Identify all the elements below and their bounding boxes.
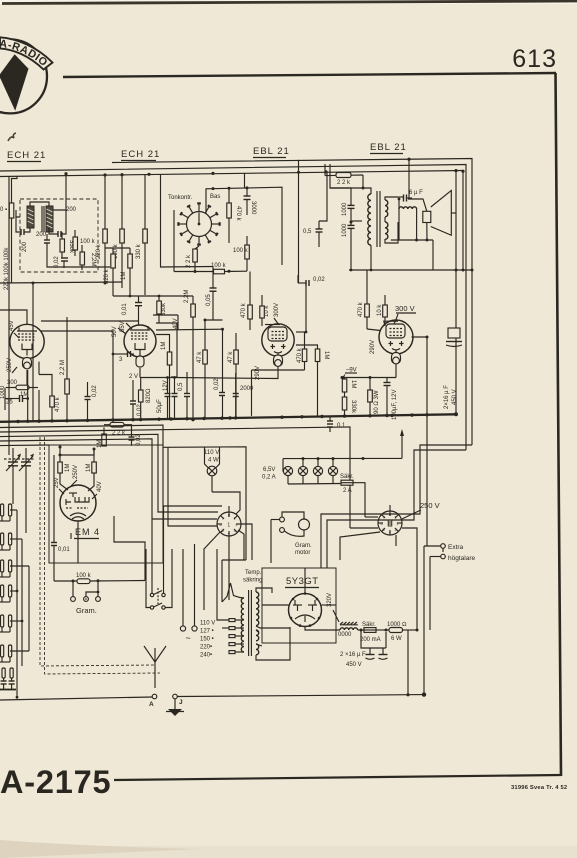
- misc left verticals: [13, 283, 33, 533]
- svg-text:2 A: 2 A: [343, 488, 352, 494]
- wire tone left drop: [173, 210, 175, 272]
- svg-text:5Y3GT: 5Y3GT: [286, 576, 319, 587]
- svg-text:110 V: 110 V: [204, 450, 219, 456]
- svg-text:470 k: 470 k: [241, 302, 247, 318]
- resistor 820k: [104, 248, 115, 296]
- svg-text:12V: 12V: [163, 380, 169, 391]
- svg-text:~: ~: [186, 633, 191, 643]
- choke (filter): [338, 622, 358, 638]
- antenna: [144, 646, 166, 688]
- svg-text:0,5: 0,5: [178, 382, 184, 391]
- tube V3 EBL21: [262, 324, 294, 367]
- cascade rail 4: [0, 439, 217, 519]
- capacitor 100µF 12V: [384, 364, 399, 421]
- capacitor 3000 (tone): [244, 188, 257, 215]
- svg-text:40V: 40V: [97, 481, 103, 492]
- gram jack wiring: [114, 516, 145, 581]
- svg-text:1M: 1M: [86, 464, 92, 472]
- bus junction dots: [16, 412, 458, 423]
- svg-text:25V: 25V: [54, 477, 60, 488]
- svg-text:250 V: 250 V: [420, 501, 440, 510]
- svg-text:470 k: 470 k: [55, 396, 61, 412]
- resistor 1M (V2): [161, 342, 172, 419]
- svg-text:220•: 220•: [200, 645, 212, 651]
- wire V1 grid top: [0, 310, 27, 325]
- label 250V (EM4): [71, 465, 79, 486]
- svg-text:250V: 250V: [73, 465, 79, 479]
- node dots on bus C: [103, 170, 327, 176]
- svg-text:EBL 21: EBL 21: [253, 146, 290, 157]
- svg-text:2: 2: [397, 522, 399, 526]
- svg-text:motor: motor: [295, 550, 310, 556]
- resistor 1M (V1 cathode) + label 300: [6, 380, 38, 398]
- resistor 22k (tone): [186, 249, 197, 272]
- cascade rail 5 (EM4 feed): [0, 444, 49, 447]
- capacitor 0,5 (left of OT): [303, 221, 323, 247]
- svg-text:0,1: 0,1: [337, 423, 346, 429]
- svg-text:1: 1: [234, 517, 236, 521]
- svg-text:100 k: 100 k: [80, 239, 96, 245]
- resistor 470k (V4 grid): [252, 286, 308, 416]
- svg-text:127 •: 127 •: [200, 629, 214, 635]
- label 25V (EM4): [54, 477, 64, 494]
- svg-text:200: 200: [36, 232, 47, 238]
- resistor 22k (V2 agc, below bus): [104, 422, 132, 437]
- capacitor 0,01 (EM4): [51, 455, 70, 581]
- switch section 6: [1, 645, 12, 657]
- svg-text:2 2 k: 2 2 k: [112, 431, 126, 437]
- wire v 160.5: [160, 174, 162, 267]
- EM4 compartment box: [49, 445, 163, 563]
- svg-text:6 W: 6 W: [391, 636, 402, 642]
- svg-text:47 k: 47 k: [228, 351, 234, 363]
- terminal J (jord): [166, 694, 184, 716]
- svg-text:0,02: 0,02: [92, 385, 98, 397]
- wire Extra drop: [442, 548, 444, 552]
- svg-text:8: 8: [228, 514, 230, 518]
- svg-text:EM 4: EM 4: [75, 527, 100, 537]
- svg-text:50V: 50V: [112, 326, 118, 337]
- stray mark: [8, 133, 16, 141]
- svg-text:0,05: 0,05: [206, 294, 212, 306]
- svg-text:EBL 21: EBL 21: [370, 142, 407, 153]
- main B+ wire: [305, 627, 340, 630]
- svg-text:0,2 A: 0,2 A: [262, 475, 276, 481]
- secondary winding: [385, 200, 388, 217]
- primary winding: [368, 194, 371, 245]
- capacitor 3 (V2 osc): [112, 351, 134, 363]
- svg-text:10 k: 10 k: [264, 305, 270, 317]
- svg-text:ECH 21: ECH 21: [121, 149, 160, 160]
- svg-text:200: 200: [22, 241, 28, 252]
- label 300V with arrow: [394, 304, 416, 324]
- svg-text:2 2 k: 2 2 k: [186, 254, 192, 268]
- tube socket S2: [378, 505, 402, 535]
- terminal A: [0, 694, 157, 708]
- svg-text:330k: 330k: [161, 302, 167, 316]
- svg-text:7: 7: [222, 517, 224, 521]
- bottom ground wire: [177, 695, 424, 697]
- svg-text:5: 5: [222, 529, 224, 533]
- svg-text:250V: 250V: [7, 358, 13, 372]
- fuse Säkr 2A: [288, 474, 365, 517]
- capacitor 0,02 (below can): [54, 256, 68, 268]
- capacitor 0,05: [206, 267, 217, 321]
- capacitor 0,02 (V2 cath): [130, 380, 143, 420]
- page top rule: [63, 73, 556, 77]
- wire V4 grid/screen stubs: [367, 322, 385, 331]
- svg-text:2 V: 2 V: [129, 374, 138, 380]
- wire V1 cathode rail: [38, 362, 40, 375]
- capacitor 0,5 (bypass row): [178, 372, 190, 419]
- wire h 296: [113, 295, 193, 297]
- svg-text:1M: 1M: [323, 351, 329, 359]
- wire EM4 anode feed: [60, 454, 94, 456]
- label 250V: [7, 358, 17, 373]
- svg-text:330 k: 330 k: [136, 243, 142, 259]
- column verticals: [17, 510, 29, 699]
- svg-text:470 k: 470 k: [297, 347, 303, 363]
- svg-text:50µF: 50µF: [157, 399, 163, 413]
- resistor 47k (b): [228, 333, 238, 419]
- svg-text:0,02: 0,02: [136, 434, 142, 446]
- wire V4 plate to rail: [412, 337, 428, 546]
- capacitor 0,02 (V4 grid): [298, 275, 325, 286]
- wire v 244.5: [244, 173, 246, 188]
- contacts bottom: [2, 668, 13, 678]
- tube label ECH 21: [7, 150, 46, 162]
- resistor (antenna series): [0, 176, 17, 283]
- jack A: [71, 597, 76, 602]
- capacitor 0,02 (agc, below bus): [129, 434, 143, 446]
- svg-text:31996 Svea Tr. 4 52: 31996 Svea Tr. 4 52: [511, 785, 567, 791]
- svg-text:450 V: 450 V: [452, 389, 458, 405]
- svg-text:Säkr.: Säkr.: [340, 474, 354, 480]
- svg-text:470 k: 470 k: [358, 301, 364, 317]
- jack C: [96, 597, 101, 602]
- wire h 282: [0, 282, 122, 283]
- svg-text:2×16 µ F: 2×16 µ F: [444, 385, 450, 409]
- output transformer T2: [297, 160, 398, 283]
- svg-text:4 W: 4 W: [208, 458, 219, 464]
- svg-text:Extra: Extra: [448, 544, 464, 551]
- resistor 470k (tone): [227, 188, 241, 243]
- resistor 470k (V1): [39, 375, 61, 421]
- capacitor C3 0,02 in can: [44, 234, 50, 250]
- svg-text:320V: 320V: [327, 593, 333, 607]
- wire psu drop: [407, 630, 409, 695]
- svg-text:100 k: 100 k: [76, 573, 92, 579]
- wire V2 pin rails: [156, 323, 177, 377]
- svg-text:820Ω: 820Ω: [146, 388, 152, 403]
- svg-text:110 V: 110 V: [200, 621, 215, 627]
- svg-text:Bas: Bas: [210, 194, 220, 200]
- svg-text:1000: 1000: [342, 202, 348, 216]
- svg-text:J: J: [179, 699, 183, 706]
- svg-text:3: 3: [234, 529, 236, 533]
- svg-text:1: 1: [227, 523, 230, 529]
- resistor 2,2M (V2): [191, 296, 196, 421]
- svg-text:2,2 M: 2,2 M: [60, 360, 66, 375]
- switch section 3: [1, 560, 12, 572]
- svg-text:2: 2: [236, 523, 238, 527]
- svg-text:1M: 1M: [20, 392, 28, 398]
- svg-text:6 µ F: 6 µ F: [409, 190, 423, 196]
- svg-text:470 k: 470 k: [235, 206, 241, 222]
- svg-text:150 •: 150 •: [200, 637, 214, 643]
- pilot lamps rail: [283, 457, 402, 459]
- svg-text:6: 6: [220, 523, 222, 527]
- svg-text:A: A: [149, 701, 154, 708]
- svg-text:0 ▪: 0 ▪: [0, 207, 7, 213]
- primary taps: [222, 619, 244, 654]
- label EM 4: [71, 527, 100, 539]
- capacitor 25: [5, 395, 29, 406]
- svg-text:ECH 21: ECH 21: [7, 150, 46, 161]
- resistor 330k (in can): [60, 232, 74, 258]
- terminal högtalare: [430, 554, 475, 562]
- svg-text:4: 4: [389, 531, 391, 535]
- tube EM4 magic eye: [60, 485, 96, 521]
- resistor 100k (tone vertical): [233, 236, 249, 271]
- tube V4 EBL21: [379, 320, 413, 364]
- temp fuse: [222, 560, 262, 602]
- svg-text:1M: 1M: [121, 272, 127, 280]
- wire h 267 row: [160, 266, 213, 269]
- core: [376, 191, 378, 247]
- svg-text:0,01: 0,01: [58, 547, 70, 553]
- pilot lamp 4: [328, 459, 337, 484]
- tap riser: [217, 549, 229, 620]
- label 45V: [9, 320, 19, 338]
- resistor 330k (bank): [136, 174, 147, 295]
- wire can outputs: [47, 250, 110, 267]
- capacitor 1000 (lower): [342, 221, 362, 271]
- wire top border A: [112, 159, 472, 446]
- wire heater rail: [163, 447, 246, 560]
- svg-text:2 2 k: 2 2 k: [337, 180, 351, 186]
- svg-text:0,02: 0,02: [137, 404, 143, 416]
- switch section 1: [1, 504, 12, 516]
- resistor 30k (V4): [296, 172, 329, 417]
- cascade rail 1: [0, 425, 222, 506]
- resistor 330k (V4): [342, 397, 356, 416]
- arrow up (field supply): [400, 429, 404, 458]
- mains switch DPST: [146, 506, 172, 609]
- right feed chain A: [321, 445, 472, 568]
- switch section 2: [1, 533, 12, 545]
- resistor 10k (V3): [260, 295, 265, 326]
- IF transformer can (dashed shield): [20, 199, 98, 272]
- svg-text:200: 200: [66, 207, 77, 213]
- pilot lamp 2: [298, 459, 307, 484]
- svg-text:3000: 3000: [250, 201, 256, 215]
- wire V1-V2 couplings: [41, 320, 139, 322]
- svg-text:2 ×16 µ F: 2 ×16 µ F: [340, 652, 366, 658]
- resistor 47k (a): [197, 319, 223, 420]
- switch section 4: [1, 585, 12, 597]
- transformer secondary wires: [256, 588, 290, 660]
- fuse Säkr 200mA: [358, 622, 389, 643]
- switch section 5: [1, 615, 12, 627]
- wire h 248: [105, 247, 130, 249]
- socket S1 fan wires: [204, 492, 252, 610]
- svg-text:300: 300: [7, 380, 18, 386]
- resistor 470k (V4 feed): [358, 270, 369, 329]
- IF coil L2 secondary: [42, 206, 53, 232]
- svg-text:Gram.: Gram.: [76, 606, 97, 615]
- logo SVEA-RADIO: [0, 37, 53, 113]
- label 300V (V3) + tick: [274, 318, 278, 324]
- tuning gang variable capacitors: [4, 454, 34, 475]
- svg-text:Gram.: Gram.: [295, 543, 312, 549]
- svg-text:1M: 1M: [161, 342, 167, 350]
- capacitor 0,02 (avc): [85, 382, 99, 420]
- capacitor 2000: [233, 373, 254, 419]
- capacitor 0,1: [327, 416, 346, 432]
- IF coil L1 primary: [27, 202, 49, 228]
- svg-text:450 V: 450 V: [346, 662, 362, 668]
- resistor 1M (EM4 right): [86, 449, 96, 491]
- heater caps 50µF 12V: [140, 367, 278, 420]
- capacitor C1 (IF prim): [16, 210, 30, 235]
- lamp 110V 4W: [204, 447, 220, 492]
- page right rule: [556, 73, 562, 776]
- tube V1 ECH21: [10, 324, 44, 369]
- terminal Extra: [424, 544, 464, 551]
- resistor 1000 ohm 6W: [385, 622, 419, 642]
- wire -9V rail: [342, 377, 396, 379]
- socket S2 fan wires: [340, 517, 417, 630]
- svg-text:säkring: säkring: [243, 578, 262, 584]
- svg-text:6,5V: 6,5V: [263, 467, 275, 473]
- label 250V (socket): [402, 501, 440, 519]
- wire bus C: [0, 171, 463, 177]
- resistor 820 ohm: [139, 378, 153, 421]
- label -9V with arrow: [341, 368, 357, 380]
- PSU box: [262, 568, 336, 643]
- electrolytic 2x16µF 450V (top): [349, 269, 474, 415]
- power transformer T3: [200, 590, 259, 659]
- svg-text:90 Ω 3W: 90 Ω 3W: [374, 390, 380, 414]
- pilot lamp 1: [283, 459, 293, 484]
- tube socket S1: [217, 506, 241, 536]
- wire v right rail: [455, 171, 457, 270]
- svg-text:0,02: 0,02: [54, 256, 60, 268]
- wire v antenna column: [8, 176, 10, 455]
- ground bus (chassis): [0, 414, 456, 422]
- resistor 2,2M (V1): [60, 317, 69, 421]
- resistor 1M (V2 agc, below bus): [97, 427, 106, 448]
- svg-text:Säkr.: Säkr.: [362, 622, 376, 628]
- tube V2 ECH21: [124, 325, 156, 367]
- resistor 1M (bank): [121, 248, 132, 296]
- resistor 10k (V4): [377, 295, 387, 326]
- band switch column: [0, 504, 29, 699]
- svg-text:1000 Ω: 1000 Ω: [387, 622, 407, 628]
- svg-text:10 k: 10 k: [377, 304, 383, 316]
- capacitor 6µF: [398, 190, 423, 202]
- svg-text:2,2M: 2,2M: [184, 290, 190, 303]
- svg-text:1M: 1M: [97, 440, 103, 448]
- svg-text:Temp.: Temp.: [245, 570, 262, 576]
- loudspeaker: [391, 190, 452, 270]
- svg-text:5: 5: [383, 528, 385, 532]
- svg-text:613: 613: [512, 45, 557, 73]
- resistor 330k (V2 grid leak): [157, 296, 162, 323]
- svg-text:1000: 1000: [342, 223, 348, 237]
- cascade rail 2: [0, 427, 350, 528]
- svg-text:100 k: 100 k: [233, 248, 249, 254]
- svg-text:0,5: 0,5: [303, 229, 312, 235]
- gram motor connector: [271, 512, 312, 563]
- svg-text:1M: 1M: [350, 380, 356, 388]
- page bottom rule: [114, 775, 561, 780]
- rotary switch tone control: [177, 202, 220, 245]
- svg-text:240•: 240•: [200, 653, 212, 659]
- svg-text:Tonkontr.: Tonkontr.: [168, 195, 193, 201]
- wire can feed: [65, 174, 67, 210]
- tube V5 5Y3GT: [289, 592, 322, 627]
- capacitor 0,02 (row): [214, 329, 225, 419]
- resistor 470k (V3 grid): [248, 272, 253, 331]
- svg-text:200 mA: 200 mA: [360, 637, 381, 643]
- labels above V3: [241, 302, 280, 318]
- wire top border B: [0, 165, 466, 451]
- svg-text:0000: 0000: [338, 632, 352, 638]
- cascade rail 3: [0, 434, 218, 512]
- pilot lamp 3: [313, 459, 322, 484]
- wire speaker top return: [451, 212, 456, 214]
- resistor 100k (tone horizontal): [174, 263, 247, 274]
- mains plug: [180, 544, 197, 643]
- svg-text:300 V: 300 V: [395, 304, 415, 313]
- tube label EBL 21 (2nd): [370, 142, 407, 154]
- svg-text:290V: 290V: [370, 340, 376, 354]
- label 40V (EM4): [92, 481, 103, 499]
- svg-text:7: 7: [383, 516, 385, 520]
- wire EM4 cathode: [77, 521, 79, 563]
- wire 5Y3 plate feeds: [262, 568, 336, 605]
- resistor 1M (EM4 left): [58, 455, 71, 490]
- label 5Y3GT: [285, 576, 319, 588]
- svg-text:6: 6: [381, 522, 383, 526]
- wire tone mid: [195, 246, 199, 249]
- wire V2 anode coupling: [156, 328, 223, 331]
- wire 6µF feed: [408, 159, 410, 198]
- resistor 100k (in can): [73, 230, 96, 256]
- electrolytic 2x16µF 450V (psu): [340, 629, 388, 669]
- svg-text:högtalare: högtalare: [448, 555, 475, 562]
- tube label ECH 21 (2nd): [121, 149, 160, 161]
- label 320V: [327, 593, 339, 622]
- capacitor C2 (IF sec): [49, 210, 66, 237]
- label 50V: [112, 326, 126, 337]
- svg-text:0,02: 0,02: [313, 277, 325, 283]
- svg-text:A-2175: A-2175: [0, 764, 111, 800]
- wire tone box top: [206, 187, 282, 265]
- svg-text:55V: 55V: [120, 321, 126, 332]
- jack B (pin): [84, 591, 100, 602]
- svg-text:0,02: 0,02: [214, 378, 220, 390]
- svg-text:330k: 330k: [350, 400, 356, 414]
- right feed chain B: [327, 450, 466, 568]
- svg-text:0,01: 0,01: [122, 303, 128, 315]
- svg-text:220 k: 220 k: [96, 243, 102, 259]
- resistor 90 ohm 3W: [368, 378, 380, 417]
- paper top edge line: [2, 1, 577, 4]
- socket fan from heater rail: [168, 447, 217, 526]
